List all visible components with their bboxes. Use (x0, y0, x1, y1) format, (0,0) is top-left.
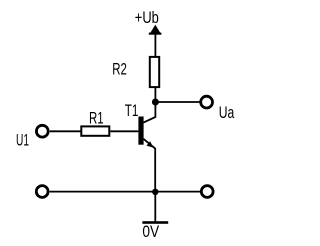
wire arrow to R2 (154, 33, 156, 57)
wire U1 to R1 (50, 130, 81, 132)
terminal bottom right (201, 186, 213, 198)
wire R1 to base (110, 130, 138, 132)
wire node to Ua terminal (155, 101, 200, 103)
svg-text:0V: 0V (142, 223, 159, 241)
transistor T1 emitter arrow (146, 141, 153, 147)
terminal U1 (36, 125, 48, 137)
svg-text:R1: R1 (89, 110, 104, 128)
svg-text:+Ub: +Ub (135, 9, 159, 27)
node collector junction (152, 99, 159, 106)
svg-text:T1: T1 (125, 102, 139, 120)
power arrow +Ub (149, 25, 162, 35)
svg-text:Ua: Ua (219, 104, 235, 122)
terminal Ua (201, 96, 213, 108)
svg-text:R2: R2 (112, 60, 127, 78)
node emitter rail junction (152, 189, 158, 195)
wire R2 to collector node (154, 88, 156, 103)
resistor R2 (150, 57, 159, 87)
wire bottom rail (50, 191, 201, 193)
transistor T1 collector lead (143, 102, 155, 123)
transistor T1 base bar (138, 117, 143, 145)
resistor R1 (81, 126, 109, 135)
ground bar (142, 221, 168, 224)
terminal bottom left (36, 186, 48, 198)
wire junction to ground (154, 192, 156, 223)
svg-text:U1: U1 (16, 132, 29, 150)
transistor T1 emitter lead (143, 139, 155, 192)
